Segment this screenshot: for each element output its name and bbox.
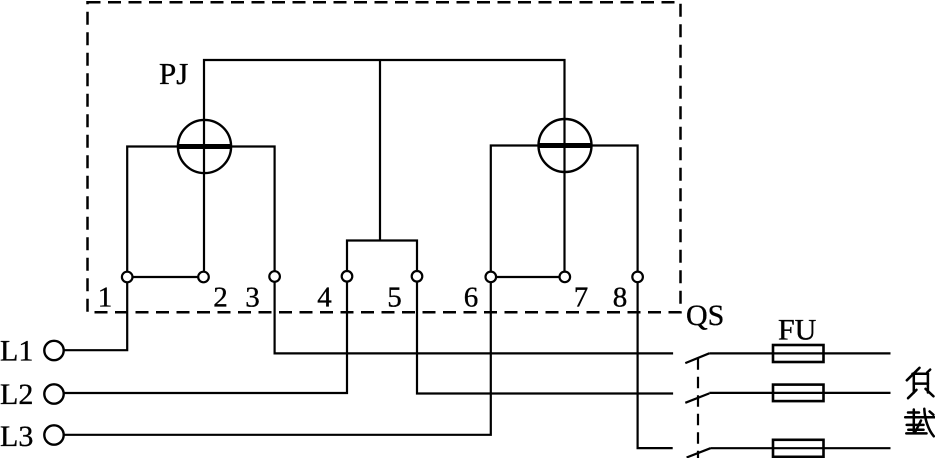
L3 source terminal [44, 425, 63, 444]
wire: element 1 center drop to terminal 2 [203, 145, 205, 272]
wire: element 2 center drop to terminal 7 [563, 145, 565, 272]
svg-text:5: 5 [387, 282, 402, 314]
terminal 1 [122, 272, 133, 283]
L2 source terminal [44, 384, 63, 403]
fuse FU pole 1 [773, 345, 824, 362]
svg-text:7: 7 [574, 282, 589, 314]
terminal 4 [342, 271, 353, 282]
wire: terminal 8 to switch pole 3 [638, 281, 673, 448]
wire: terminal 3 to switch pole 1 [275, 281, 673, 353]
terminal 3 [269, 271, 280, 282]
L1 source terminal [44, 341, 63, 360]
meter enclosure dashed box [88, 2, 681, 312]
svg-text:8: 8 [613, 282, 628, 314]
element 1 thick coil bar [177, 144, 232, 149]
svg-text:L3: L3 [0, 420, 33, 453]
terminal 2 [198, 272, 209, 283]
wire: L3 to terminal 6 [64, 281, 491, 434]
terminal 8 [632, 272, 643, 283]
svg-text:4: 4 [317, 282, 332, 314]
switch QS pole 1 blade [685, 353, 709, 363]
wire: terminal 5 to switch pole 2 [417, 281, 673, 394]
svg-text:PJ: PJ [159, 56, 188, 91]
svg-text:6: 6 [464, 282, 479, 314]
svg-text:L1: L1 [0, 335, 33, 368]
wire: element 1 current coil run [127, 147, 274, 273]
wire: L1 to terminal 1 [64, 282, 127, 351]
wire: pole 2 to load [709, 392, 890, 394]
load label character fu (负) [907, 368, 934, 398]
wire: pole 1 to load [709, 352, 890, 354]
wire: pole 3 to load [711, 447, 891, 449]
svg-text:L2: L2 [0, 378, 33, 411]
wire: element 2 current coil run [491, 146, 638, 273]
svg-text:QS: QS [686, 299, 724, 332]
wire: mid vertical to bracket [379, 60, 381, 241]
wattmeter element 1 circle [178, 120, 231, 173]
svg-text:3: 3 [245, 282, 260, 314]
wire: link terminal 1 to terminal 2 [130, 276, 200, 278]
wire: L2 to terminal 4 [64, 281, 347, 393]
wire: link terminal 6 to terminal 7 [494, 276, 562, 278]
terminal 5 [412, 271, 423, 282]
svg-text:2: 2 [213, 282, 228, 314]
svg-text:1: 1 [98, 282, 113, 314]
switch QS pole 2 blade [685, 393, 709, 402]
wire: voltage link top [204, 60, 565, 145]
element 2 thick coil bar [538, 143, 592, 148]
wire: bracket to terminals 4 and 5 [347, 241, 417, 272]
load label character zai (载) [905, 409, 934, 437]
svg-text:FU: FU [778, 314, 817, 347]
fuse FU pole 2 [773, 385, 824, 402]
fuse FU pole 3 [773, 440, 824, 457]
wattmeter element 2 circle [539, 119, 592, 172]
switch QS pole 3 blade [687, 448, 711, 457]
terminal 7 [560, 272, 571, 283]
terminal 6 [486, 272, 497, 283]
switch QS gang link dashed [697, 358, 699, 458]
